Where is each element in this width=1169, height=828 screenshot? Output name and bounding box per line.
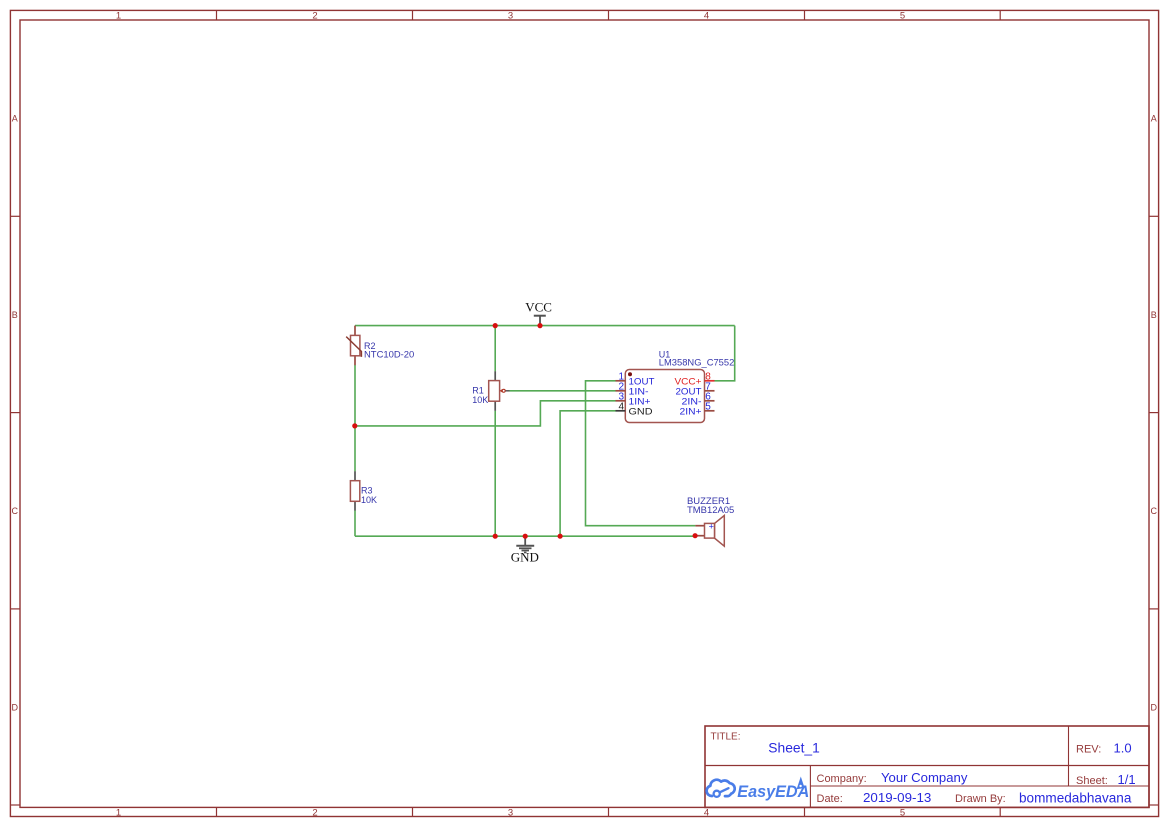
svg-text:D: D	[1151, 702, 1158, 712]
svg-text:4: 4	[704, 11, 709, 22]
svg-text:Date:: Date:	[817, 793, 843, 805]
svg-text:NTC10D-20: NTC10D-20	[364, 349, 414, 359]
svg-text:Drawn By:: Drawn By:	[955, 793, 1006, 805]
junction node on top rail at R1 column	[493, 323, 498, 328]
svg-text:4: 4	[618, 402, 624, 413]
ruler ticks left	[11, 216, 21, 805]
junction node bottom rail at pin4 wire	[558, 534, 563, 539]
U1 pin 2 stub	[616, 390, 626, 392]
wire: pin 4 (GND) to bottom rail	[560, 411, 615, 536]
svg-text:1: 1	[116, 808, 121, 819]
svg-text:5: 5	[900, 808, 905, 819]
svg-text:3: 3	[508, 11, 513, 22]
svg-text:B: B	[1151, 310, 1157, 320]
svg-text:GND: GND	[629, 406, 653, 417]
buzzer BUZZER1 TMB12A05	[695, 516, 724, 547]
ruler numbers top	[116, 11, 905, 22]
svg-text:2: 2	[312, 808, 317, 819]
wire: left column R3 to bottom rail	[354, 511, 356, 537]
ruler ticks right	[1149, 216, 1159, 805]
svg-text:4: 4	[704, 808, 709, 819]
svg-text:bommedabhavana: bommedabhavana	[1019, 791, 1132, 806]
U1 pin 1 stub	[616, 380, 626, 382]
svg-text:TITLE:: TITLE:	[711, 731, 741, 742]
svg-text:A: A	[1151, 113, 1157, 123]
ruler ticks bottom	[217, 807, 1001, 817]
U1 pin 7 stub	[705, 390, 715, 392]
svg-text:1: 1	[116, 11, 121, 22]
svg-text:2019-09-13: 2019-09-13	[863, 790, 931, 805]
U1 pin 8 stub	[705, 380, 715, 382]
svg-text:Sheet:: Sheet:	[1076, 775, 1108, 787]
U1 pin 6 stub	[705, 400, 715, 402]
resistor R2 (NTC thermistor)	[346, 326, 361, 366]
svg-text:Sheet_1: Sheet_1	[768, 740, 820, 756]
svg-text:10K: 10K	[361, 495, 377, 505]
U1 pin 4 stub	[616, 410, 626, 412]
svg-text:3: 3	[508, 808, 513, 819]
wire: bottom GND rail	[355, 535, 695, 537]
svg-text:LM358NG_C7552: LM358NG_C7552	[659, 358, 735, 368]
svg-text:10K: 10K	[472, 395, 488, 405]
svg-text:Your Company: Your Company	[881, 770, 968, 785]
ruler letters left	[12, 113, 19, 712]
U1 pin 3 stub	[616, 400, 626, 402]
svg-text:2IN+: 2IN+	[680, 406, 702, 417]
title block divider left of REV column	[1068, 726, 1070, 786]
svg-text:D: D	[12, 702, 19, 712]
wire: R1 column bottom	[494, 411, 496, 537]
EasyEDA logo cloud icon	[707, 780, 735, 797]
resistor R3	[350, 471, 359, 510]
title block divider under title row	[705, 765, 1149, 767]
svg-text:C: C	[12, 506, 19, 516]
title block outer rect	[705, 726, 1149, 807]
U1 pin 5 stub	[705, 410, 715, 412]
svg-text:1.0: 1.0	[1114, 741, 1132, 756]
op-amp U1 LM358NG_C7552	[625, 370, 704, 423]
junction node R2/R3 divider	[352, 423, 357, 428]
junction node on top rail at VCC	[537, 323, 542, 328]
ruler numbers bottom	[116, 808, 905, 819]
svg-text:B: B	[12, 310, 18, 320]
ruler ticks top	[217, 11, 1001, 21]
wire: VCC top rail	[355, 325, 735, 327]
svg-text:A: A	[12, 113, 18, 123]
wire: pin 1 (1OUT) to buzzer	[586, 381, 696, 526]
potentiometer R1	[489, 371, 510, 411]
wire: pin 8 (VCC+) to top rail	[715, 326, 735, 381]
svg-text:GND: GND	[511, 550, 539, 565]
svg-text:C: C	[1151, 506, 1158, 516]
svg-text:VCC: VCC	[525, 300, 552, 315]
svg-text:1/1: 1/1	[1118, 772, 1136, 787]
VCC power symbol	[525, 300, 552, 326]
ruler letters right	[1151, 113, 1158, 712]
title block divider right of logo cell	[809, 766, 811, 808]
svg-text:TMB12A05: TMB12A05	[687, 505, 734, 515]
EasyEDA logo pen nib	[797, 777, 805, 790]
svg-text:5: 5	[900, 11, 905, 22]
svg-text:2: 2	[312, 11, 317, 22]
svg-text:Company:: Company:	[817, 773, 867, 785]
title block divider under company row	[810, 785, 1149, 787]
svg-text:5: 5	[705, 402, 711, 413]
svg-text:REV:: REV:	[1076, 744, 1101, 756]
wire: R1 column top	[494, 326, 496, 372]
wire: pin 3 (1IN+) to R2/R3 node	[355, 401, 616, 426]
ground symbol GND	[511, 536, 539, 565]
svg-text:+: +	[709, 521, 714, 531]
wire: left column R2 to R3	[354, 365, 356, 471]
junction node at buzzer negative pin	[693, 533, 698, 538]
junction node bottom rail at GND	[523, 534, 528, 539]
junction node bottom rail at R1 column	[493, 534, 498, 539]
wire: R1 wiper to pin 2 (1IN-)	[510, 390, 616, 392]
